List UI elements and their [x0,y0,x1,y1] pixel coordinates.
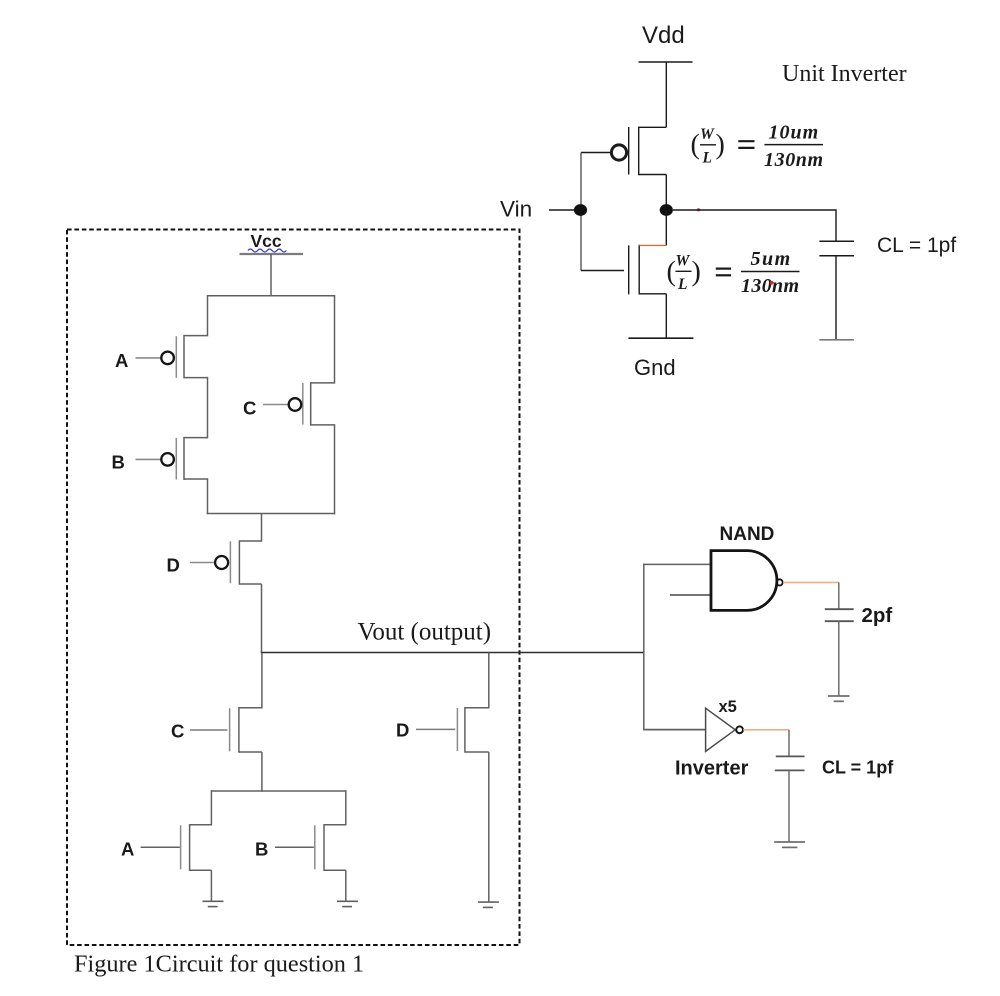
ground symbol under D [478,902,499,907]
red dot artifact on output wire [697,208,700,211]
wire gate B nmos lead [275,846,314,848]
transistor D NMOS [457,707,488,753]
wire M2 gate lead [581,270,624,272]
svg-text:130nm: 130nm [741,275,799,297]
wire gate C nmos lead [190,729,228,731]
wire gate bus Vin vertical [580,153,582,271]
transistor B PMOS [161,437,207,480]
svg-text:D: D [167,555,180,576]
svg-text:x5: x5 [719,698,737,716]
wire Vout bus [261,652,644,654]
svg-text:CL = 1pf: CL = 1pf [877,234,956,257]
svg-text:B: B [255,839,268,860]
svg-text:C: C [171,721,184,742]
NAND output bubble [777,579,783,585]
wire nmos B drain up [345,790,347,825]
wire between A and B [207,377,209,438]
capacitor 2pf [825,609,854,621]
wire PUN bottom rail [207,513,335,515]
svg-text:C: C [243,398,256,419]
svg-text:(: ( [667,257,676,288]
svg-text:L: L [702,150,712,167]
svg-text:W: W [676,253,691,270]
ground rail under CL [819,339,854,341]
wire Vdd to PMOS drain [665,62,667,127]
svg-text:CL = 1pf: CL = 1pf [822,758,894,778]
svg-text:5um: 5um [751,248,792,270]
wire fanout branch vertical [643,564,645,731]
svg-text:Vout (output): Vout (output) [358,619,492,646]
wire right branch upper [334,295,336,384]
ground symbol under A [203,901,224,906]
wire inverter input [644,729,706,731]
wire NAND input 1 [643,563,711,565]
ground symbol under B [337,901,358,906]
wire nmos A drain up [210,790,212,825]
wire gate C lead [263,404,288,406]
wire PDN junction rail [211,790,347,792]
transistor D PMOS [215,540,261,584]
wire M1 gate lead [581,152,611,154]
wire nmos D source to ground [488,752,490,902]
wire M1 source to output node [665,175,667,211]
wire M2 source to Gnd [665,294,667,338]
wire gate D lead [190,562,215,564]
svg-text:): ) [692,257,701,288]
transistor B NMOS [315,824,346,871]
wire inverter output highlighted [743,729,789,731]
svg-text:NAND: NAND [720,524,775,545]
wire output node to NMOS drain [665,210,667,245]
svg-text:2pf: 2pf [862,604,893,627]
NAND gate U3 [711,551,777,611]
Vdd power rail [639,61,693,63]
wire gate A lead [136,357,161,359]
wire NAND input 2 [670,594,711,596]
wire PUN top rail [207,295,335,297]
svg-text:Figure 1Circuit for question 1: Figure 1Circuit for question 1 [74,951,364,978]
svg-text:130nm: 130nm [764,149,824,171]
svg-text:A: A [121,839,134,860]
svg-text:A: A [115,350,128,371]
transistor C NMOS [230,707,262,753]
capacitor CL 1pf load [775,756,805,770]
wire inverter load cap lead [788,730,790,756]
label W/L ratio of M2 [667,248,800,297]
transistor C PMOS [289,382,335,425]
svg-text:Inverter: Inverter [675,758,749,780]
svg-text:L: L [677,276,687,293]
wire left branch lower [207,478,209,514]
wire PUN output down to D [261,514,263,542]
wire right branch lower [334,424,336,514]
Vcc power rail [240,253,304,255]
transistor A PMOS [161,335,207,378]
Gnd power rail [628,337,693,339]
svg-text:): ) [716,130,725,161]
svg-text:Vdd: Vdd [642,22,685,49]
inverter output bubble [736,726,743,733]
wire nmos D drain up [488,653,490,709]
wire NAND output highlighted [783,581,839,583]
wire gate A nmos lead [141,846,180,848]
wire 2pf to ground [838,621,840,695]
svg-text:10um: 10um [769,122,820,144]
wire D source down to Vout [261,584,263,653]
svg-text:Vcc: Vcc [251,231,282,251]
wire Vin input lead [549,209,581,211]
transistor M2 NMOS of unit inverter [629,245,667,295]
ground symbol under CL load [774,842,805,847]
wire nmos C drain up [261,653,263,709]
label W/L ratio of M1 [691,122,824,171]
junction output node [660,204,673,216]
wire NAND load cap lead [838,582,840,609]
svg-text:D: D [396,720,409,741]
spellcheck squiggle under Vcc [248,249,286,252]
wire gate D nmos lead [416,728,455,730]
svg-text:Gnd: Gnd [634,355,676,380]
transistor M1 PMOS of unit inverter [611,127,666,176]
wire nmos A source to ground [210,870,212,901]
wire nmos B source to ground [345,870,347,901]
transistor A NMOS [181,824,212,871]
svg-text:Unit Inverter: Unit Inverter [782,61,907,87]
wire nmos C source down [261,752,263,792]
inverter x5 triangle [706,708,736,751]
wire Vcc to PUN [270,254,272,296]
svg-text:B: B [112,452,125,473]
wire gate B lead [136,458,161,460]
wire output node to load capacitor [673,210,836,241]
wire CL load to ground [788,770,790,841]
wire CL bottom to ground [835,256,837,340]
red dot artifact near 130nm [770,281,774,285]
ground symbol under 2pf [828,696,850,701]
svg-text:Vin: Vin [500,197,532,222]
wire left branch upper [207,295,209,336]
svg-text:(: ( [691,130,700,161]
junction Vin node [574,204,587,216]
dashed enclosure box [67,230,520,946]
svg-text:W: W [700,126,715,143]
capacitor CL of unit inverter [819,241,854,256]
